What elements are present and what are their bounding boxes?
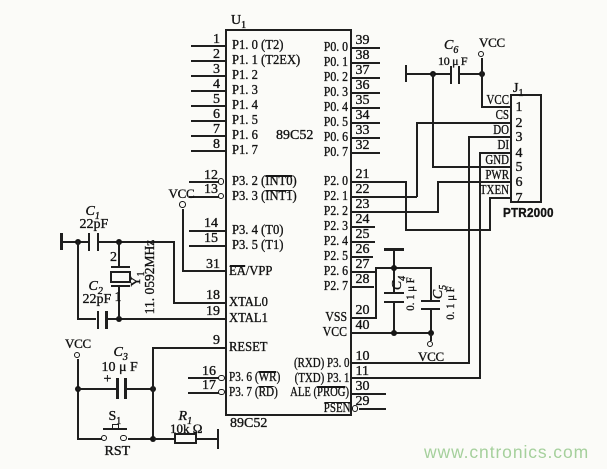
- pin 15 number: [188, 232, 218, 246]
- capacitor C5 plates: [421, 300, 440, 303]
- resistor R1 label: [179, 410, 193, 424]
- pin 2 number: [190, 48, 220, 62]
- pin 32 wire: [352, 152, 381, 154]
- pin 22 number: [356, 183, 370, 197]
- crystal frequency label (rotated): [143, 240, 157, 315]
- pin 24 number: [356, 213, 370, 227]
- wire VCC terminal stub: [430, 334, 432, 341]
- wire C3 left: [77, 388, 117, 390]
- capacitor C4 plates: [384, 292, 404, 295]
- capacitor C3 plates: [116, 378, 119, 399]
- capacitor C1 ground stub bar: [60, 233, 63, 251]
- pin 27 wire P2.6: [352, 271, 377, 273]
- wire J1 GND horizontal: [432, 166, 511, 168]
- wire C6 left: [406, 73, 450, 75]
- pin 25 wire: [352, 241, 376, 243]
- wire J1 VCC horizontal: [481, 106, 512, 108]
- power VCC terminal circle (reset circuit): [74, 352, 81, 359]
- pin 26 wire: [352, 256, 374, 258]
- node junction VCC tap: [479, 71, 485, 77]
- pin 33 wire: [352, 137, 381, 139]
- label J1: [513, 82, 523, 96]
- pin 37 number: [356, 64, 370, 78]
- pin 35 wire: [352, 107, 381, 109]
- node junction S1 / R1 / reset rail: [150, 436, 156, 442]
- pin 11 number: [356, 365, 369, 379]
- pin 17 wire: [188, 392, 219, 394]
- wire C5 lower stem: [430, 310, 432, 334]
- capacitor C4 value: [403, 277, 417, 310]
- pin 14 number: [188, 217, 218, 231]
- wire C5 upper stem: [430, 267, 432, 301]
- label PTR2000: [503, 206, 554, 220]
- node junction GND tap: [430, 71, 436, 77]
- pin 9 wire RESET: [152, 347, 225, 349]
- pin 25 number: [356, 228, 370, 242]
- switch RST label: [105, 445, 131, 459]
- capacitor C3 label: [114, 346, 128, 360]
- pin 12 circle: [218, 178, 225, 185]
- pin 12 wire: [189, 181, 219, 183]
- IC right column pin names: [247, 41, 348, 55]
- pin 21 number: [356, 168, 370, 182]
- wire VCC to EA/VPP vertical: [182, 209, 184, 272]
- wire C4 lower stem: [393, 303, 395, 334]
- pin 40 wire VCC: [352, 332, 432, 334]
- pin 28 number: [356, 273, 370, 287]
- pin 21 wire P2.0: [352, 181, 407, 183]
- pin 19 wire XTAL1 rail: [108, 318, 225, 320]
- pin 18 wire XTAL0: [173, 302, 225, 304]
- pin 23 number: [356, 198, 370, 212]
- wire ground rail vertical (left): [77, 241, 79, 319]
- capacitor C2 plates: [97, 311, 100, 329]
- wire VSS vertical link: [375, 267, 377, 320]
- label U1: [231, 14, 246, 28]
- wire J1 DI horizontal: [479, 152, 512, 154]
- switch S1 label: [109, 410, 122, 424]
- wire RESET rail vertical: [152, 347, 154, 440]
- IC U1 89C52 body: [225, 29, 352, 416]
- pin 38 number: [356, 49, 370, 63]
- connector J1 pin numbers: [516, 101, 523, 115]
- pin 39 wire: [352, 47, 381, 49]
- node junction crystal bottom: [116, 316, 122, 322]
- power VCC terminal (top right) label: [479, 36, 505, 50]
- wire J1 DO horizontal: [468, 136, 511, 138]
- pin 36 number: [356, 79, 370, 93]
- capacitor C6 label: [444, 39, 458, 53]
- pin 20 wire VSS: [352, 317, 378, 319]
- pin 23 wire P2.2: [352, 211, 440, 213]
- IC left column pin names: [232, 39, 283, 53]
- pin 37 wire: [352, 77, 381, 79]
- pin 22 wire P2.1: [352, 196, 418, 198]
- pin 7 wire: [191, 135, 225, 137]
- capacitor C4 top stub bar: [384, 248, 404, 251]
- pin 30 wire ALE: [352, 393, 386, 395]
- pin 1 number: [190, 33, 220, 47]
- wire S1 right contact to node: [128, 438, 153, 440]
- power VCC label (below C5): [418, 350, 444, 364]
- capacitor C1 value: [80, 218, 109, 232]
- switch S1 actuator bar: [103, 428, 127, 431]
- pin 10 number: [356, 350, 370, 364]
- capacitor C4 label: [391, 276, 405, 290]
- wire C6 right to VCC node: [460, 73, 482, 75]
- pin 33 number: [356, 124, 370, 138]
- wire J1 CS horizontal: [416, 122, 511, 124]
- pin 15 wire: [189, 245, 225, 247]
- pin 3 number: [190, 63, 220, 77]
- pin 19 number: [190, 305, 220, 319]
- wire crystal top rail vertical to XTAL0: [173, 241, 175, 304]
- wire TXEN vertical: [489, 197, 491, 231]
- connector J1 body: [510, 94, 542, 203]
- label 89C52 inside IC: [276, 129, 313, 143]
- pin 32 number: [356, 139, 370, 153]
- pin 31 wire EA/VPP: [182, 270, 225, 272]
- node junction C1/ground rail: [75, 239, 81, 245]
- pin 28 wire: [352, 286, 375, 288]
- resistor R1 body: [174, 433, 197, 444]
- pin 29 wire: [359, 408, 387, 410]
- pin 9 number: [190, 334, 220, 348]
- crystal Y1 upper lead: [118, 242, 120, 267]
- pin 6 wire: [191, 120, 225, 122]
- pin 13 number: [188, 183, 218, 197]
- pin 16 number: [186, 365, 216, 379]
- capacitor C6 plates: [450, 66, 453, 84]
- pin 12 number: [188, 169, 218, 183]
- pin 5 number: [190, 93, 220, 107]
- capacitor C2 value: [83, 293, 112, 307]
- pin 17 number: [186, 379, 216, 393]
- capacitor C2 label: [89, 280, 103, 294]
- wire GND vertical: [432, 73, 434, 169]
- pin 3 wire: [191, 75, 225, 77]
- capacitor C1 plates: [88, 233, 91, 251]
- pin 24 wire: [352, 226, 376, 228]
- pin 13 circle: [218, 193, 225, 200]
- wire C1 left: [62, 241, 88, 243]
- wire P2.0 vertical: [405, 181, 407, 231]
- resistor ground stub bar: [217, 429, 220, 449]
- capacitor C6 value: [438, 54, 467, 68]
- power VCC terminal circle (below C5): [427, 341, 434, 348]
- wire VCC rail vertical (reset): [77, 359, 79, 440]
- pin 16 circle: [218, 375, 225, 382]
- crystal Y1 lower lead: [118, 287, 120, 318]
- label 89C52 below IC: [230, 417, 267, 431]
- pin 14 wire: [189, 230, 225, 232]
- wire crystal top rail: [99, 241, 175, 243]
- pin 8 number: [190, 138, 220, 152]
- node junction C5 / VCC line: [428, 330, 434, 336]
- pin 36 wire: [352, 92, 381, 94]
- pin 18 number: [190, 289, 220, 303]
- resistor R1 value: [170, 422, 202, 436]
- node junction C3 left: [75, 386, 81, 392]
- node VCC (EA pull-up) terminal circle: [179, 201, 186, 208]
- pin 38 wire: [352, 62, 381, 64]
- pin 31 number: [190, 258, 220, 272]
- capacitor C3 polarity plus: [104, 373, 112, 387]
- pin 2 wire: [191, 60, 225, 62]
- pin 26 number: [356, 243, 370, 257]
- pin 8 wire: [191, 150, 225, 152]
- capacitor C6 ground stub bar: [405, 65, 408, 82]
- wire J1 TXEN horizontal: [489, 197, 511, 199]
- pin 29 number: [356, 395, 370, 409]
- pin 35 number: [356, 94, 370, 108]
- pin 10 wire RXD: [352, 362, 471, 364]
- pin 34 number: [356, 109, 370, 123]
- crystal Y1 label (rotated): [130, 271, 144, 286]
- connector J1 pin names: [470, 94, 509, 108]
- crystal Y1 body: [110, 271, 132, 283]
- pin 29 circle PSEN: [352, 405, 359, 412]
- crystal Y1 top plate bar: [111, 266, 131, 268]
- capacitor C5 label: [432, 285, 446, 299]
- pin 30 number: [356, 380, 370, 394]
- wire C2 left: [77, 318, 96, 320]
- pin 1 wire: [191, 45, 225, 47]
- wire DO vertical to P3.0: [468, 136, 470, 364]
- crystal Y1 bottom plate bar: [111, 285, 131, 287]
- wire VSS/P2.6 ground rail horizontal: [375, 267, 432, 269]
- wire DI vertical to P3.1: [479, 152, 481, 379]
- wire CS vertical to P2.1: [416, 122, 418, 198]
- pin 7 number: [190, 123, 220, 137]
- pin 20 number: [356, 304, 370, 318]
- pin 4 number: [190, 78, 220, 92]
- wire PWR vertical to P2.2: [437, 181, 439, 212]
- wire C4 upper stem: [393, 250, 395, 292]
- wire C3 right: [127, 388, 154, 390]
- pin 5 wire: [191, 105, 225, 107]
- watermark: [424, 442, 589, 463]
- node junction C3 right / reset rail: [150, 386, 156, 392]
- capacitor C5 value: [443, 286, 457, 319]
- pin 27 number: [356, 258, 370, 272]
- pin 16 wire: [188, 377, 219, 379]
- pin 39 number: [356, 34, 370, 48]
- node junction C4 / ground rail: [391, 265, 397, 271]
- pin 4 wire: [191, 90, 225, 92]
- wire S1 rail corner to left contact: [77, 438, 102, 440]
- switch S1 left contact: [101, 435, 108, 442]
- pin 11 wire TXD: [352, 377, 481, 379]
- pin 17 circle: [218, 389, 225, 396]
- crystal pin 1 number: [115, 291, 122, 305]
- pin 40 number: [356, 319, 370, 333]
- node VCC (EA pull-up) label: [169, 187, 195, 201]
- wire R1 right: [197, 438, 217, 440]
- pin 13 wire: [189, 196, 219, 198]
- node junction C4 / VCC line: [391, 330, 397, 336]
- crystal pin 2 number: [110, 251, 117, 265]
- wire node to R1: [154, 438, 175, 440]
- capacitor C1 label: [86, 205, 100, 219]
- wire J1 PWR horizontal: [437, 181, 511, 183]
- node junction crystal top: [116, 239, 122, 245]
- wire VCC vertical to J1 pin1: [481, 58, 483, 108]
- switch S1 right contact: [120, 435, 127, 442]
- pin 6 number: [190, 108, 220, 122]
- power VCC label (reset circuit): [65, 337, 91, 351]
- switch S1 button cap: [112, 424, 120, 430]
- capacitor C3 value: [102, 361, 138, 375]
- pin 34 wire: [352, 122, 381, 124]
- wire TXEN lower horizontal: [405, 229, 492, 231]
- power VCC terminal circle: [478, 51, 485, 58]
